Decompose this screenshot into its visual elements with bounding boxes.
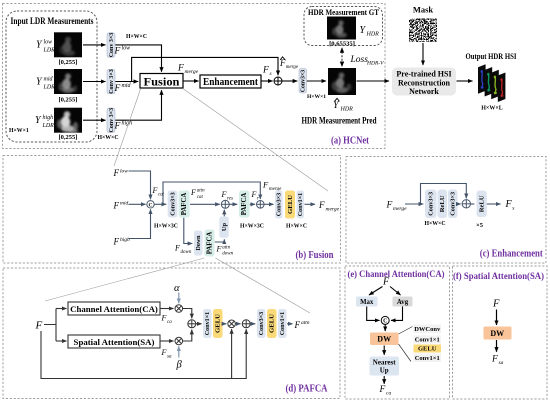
svg-text:[0,255]: [0,255] <box>59 96 78 103</box>
svg-text:LDR: LDR <box>43 85 56 91</box>
svg-text:Loss: Loss <box>350 55 369 65</box>
svg-text:merge: merge <box>286 65 299 70</box>
svg-text:high: high <box>122 121 133 127</box>
svg-text:H×W×C: H×W×C <box>126 34 147 40</box>
svg-text:Spatial Attention(SA): Spatial Attention(SA) <box>74 337 155 347</box>
svg-text:F: F <box>382 277 390 288</box>
svg-text:F: F <box>114 122 121 132</box>
svg-text:Up: Up <box>221 222 228 231</box>
svg-text:F: F <box>152 186 158 195</box>
svg-text:ReLU: ReLU <box>479 195 486 212</box>
svg-text:low: low <box>120 168 128 174</box>
svg-text:low: low <box>44 40 53 46</box>
svg-text:GELU: GELU <box>269 314 276 333</box>
svg-text:H×W×C: H×W×C <box>424 221 445 227</box>
svg-text:low: low <box>122 46 131 52</box>
svg-text:GELU: GELU <box>418 346 437 353</box>
svg-text:F: F <box>216 245 222 254</box>
svg-text:sa: sa <box>167 354 172 359</box>
svg-text:F: F <box>114 84 121 94</box>
svg-text:s: s <box>512 205 514 211</box>
svg-text:res: res <box>227 196 233 201</box>
svg-text:HDR Measurement Pred: HDR Measurement Pred <box>302 116 377 126</box>
svg-text:F: F <box>221 190 227 199</box>
svg-text:HDR: HDR <box>340 107 354 113</box>
svg-text:F: F <box>35 320 43 332</box>
svg-text:H×W×C: H×W×C <box>286 223 307 229</box>
svg-text:mid: mid <box>44 77 54 83</box>
svg-text:Down: Down <box>196 235 202 251</box>
svg-text:Conv3×3: Conv3×3 <box>428 192 435 216</box>
svg-text:Y: Y <box>36 77 43 88</box>
svg-text:HDR: HDR <box>366 32 380 38</box>
svg-text:ca: ca <box>386 390 391 396</box>
svg-text:[0,255]: [0,255] <box>59 59 78 66</box>
svg-text:α: α <box>174 283 180 294</box>
svg-text:Y: Y <box>35 115 42 126</box>
svg-text:Conv3×3: Conv3×3 <box>259 312 265 335</box>
svg-text:Conv1×1: Conv1×1 <box>205 312 211 335</box>
svg-text:Up: Up <box>380 367 389 375</box>
svg-text:down: down <box>222 252 233 257</box>
svg-text:F: F <box>318 200 325 210</box>
svg-text:F: F <box>262 66 269 76</box>
svg-text:F: F <box>161 348 167 357</box>
svg-text:Network: Network <box>409 87 439 96</box>
svg-text:(e) Channel Attention(CA): (e) Channel Attention(CA) <box>348 269 445 279</box>
svg-text:Conv1×1: Conv1×1 <box>415 337 440 344</box>
svg-text:F: F <box>386 201 393 211</box>
svg-text:Conv3×3: Conv3×3 <box>277 193 283 216</box>
svg-text:Output HDR HSI: Output HDR HSI <box>466 51 518 61</box>
svg-text:H×W×1: H×W×1 <box>307 94 326 100</box>
svg-text:Y: Y <box>333 100 340 111</box>
svg-text:sa: sa <box>499 360 504 366</box>
svg-text:F: F <box>113 237 120 247</box>
svg-text:×5: ×5 <box>476 222 484 229</box>
svg-text:F: F <box>294 320 301 330</box>
svg-text:F: F <box>174 244 180 253</box>
svg-text:Conv3×3: Conv3×3 <box>450 192 457 216</box>
svg-text:C: C <box>383 319 387 325</box>
svg-text:F: F <box>113 200 120 210</box>
svg-text:Conv3×3: Conv3×3 <box>170 192 176 215</box>
svg-text:DW: DW <box>490 329 504 338</box>
svg-text:[0,65535]: [0,65535] <box>329 41 355 48</box>
svg-text:Channel Attention(CA): Channel Attention(CA) <box>70 304 158 314</box>
svg-text:Mask: Mask <box>413 5 434 15</box>
svg-text:F: F <box>161 314 167 323</box>
svg-text:DWConv: DWConv <box>414 326 441 333</box>
svg-text:Conv1×1: Conv1×1 <box>280 312 286 335</box>
svg-text:Fusion: Fusion <box>144 76 181 88</box>
svg-text:s: s <box>270 71 272 77</box>
svg-text:PAFCA: PAFCA <box>181 193 188 216</box>
svg-text:Conv1×1: Conv1×1 <box>298 193 304 216</box>
svg-text:(f) Spatial Attention(SA): (f) Spatial Attention(SA) <box>453 271 544 281</box>
svg-text:mid: mid <box>122 83 132 89</box>
svg-text:merge: merge <box>393 206 407 212</box>
svg-text:H×W×3C: H×W×3C <box>154 223 178 229</box>
svg-text:F: F <box>491 355 498 365</box>
svg-text:cat: cat <box>197 195 204 200</box>
svg-text:Pre-trained HSI: Pre-trained HSI <box>396 70 451 79</box>
svg-text:C: C <box>149 202 153 208</box>
svg-text:merge: merge <box>185 69 199 75</box>
svg-text:F: F <box>379 385 386 395</box>
svg-text:(c) Enhancement: (c) Enhancement <box>480 249 543 260</box>
svg-text:GELU: GELU <box>287 195 294 214</box>
svg-text:merge: merge <box>326 206 340 212</box>
svg-text:Conv1×1: Conv1×1 <box>415 355 440 362</box>
svg-text:F: F <box>114 47 121 57</box>
svg-text:cat: cat <box>158 192 165 197</box>
svg-text:HDR Measurement GT: HDR Measurement GT <box>308 8 380 17</box>
svg-text:down: down <box>181 250 192 255</box>
svg-text:ReLU: ReLU <box>439 195 446 212</box>
svg-text:(b) Fusion: (b) Fusion <box>296 250 334 261</box>
svg-text:Y: Y <box>36 40 43 51</box>
svg-text:Conv3×3: Conv3×3 <box>301 70 307 92</box>
svg-text:β: β <box>176 360 183 371</box>
svg-text:high: high <box>43 115 54 121</box>
svg-text:Max: Max <box>360 299 374 306</box>
svg-text:LDR: LDR <box>42 123 55 129</box>
svg-text:attn: attn <box>222 245 230 250</box>
svg-text:PAFCA: PAFCA <box>241 193 248 216</box>
svg-text:Avg: Avg <box>397 299 409 306</box>
svg-text:DW: DW <box>377 335 391 344</box>
svg-text:F: F <box>492 299 500 310</box>
svg-text:mid: mid <box>120 201 129 207</box>
svg-text:[0,255]: [0,255] <box>59 134 78 141</box>
svg-text:Nearest: Nearest <box>373 359 396 367</box>
svg-text:Enhancement: Enhancement <box>203 77 259 88</box>
svg-text:high: high <box>120 237 130 243</box>
svg-text:H×W×L: H×W×L <box>481 106 503 112</box>
svg-text:Y: Y <box>360 25 367 36</box>
svg-text:F: F <box>190 188 196 197</box>
svg-text:H×W×C: H×W×C <box>97 135 118 141</box>
svg-text:H×W×3C: H×W×3C <box>240 223 264 229</box>
svg-text:PAFCA: PAFCA <box>206 232 213 255</box>
svg-text:(d) PAFCA: (d) PAFCA <box>286 384 328 395</box>
svg-text:F: F <box>505 199 513 210</box>
svg-text:Input LDR Measurements: Input LDR Measurements <box>11 16 94 26</box>
svg-text:attn: attn <box>197 189 205 194</box>
svg-text:F: F <box>113 168 120 178</box>
svg-text:GELU: GELU <box>215 314 222 333</box>
svg-text:(a) HCNet: (a) HCNet <box>331 136 369 147</box>
svg-text:F: F <box>177 64 184 74</box>
svg-text:H×W×1: H×W×1 <box>9 128 29 134</box>
svg-text:F: F <box>251 190 257 199</box>
svg-text:ca: ca <box>167 320 172 325</box>
svg-text:attn: attn <box>301 320 310 326</box>
svg-text:F: F <box>262 180 269 190</box>
svg-text:HDR-V: HDR-V <box>366 61 384 67</box>
svg-text:LDR: LDR <box>43 48 56 54</box>
